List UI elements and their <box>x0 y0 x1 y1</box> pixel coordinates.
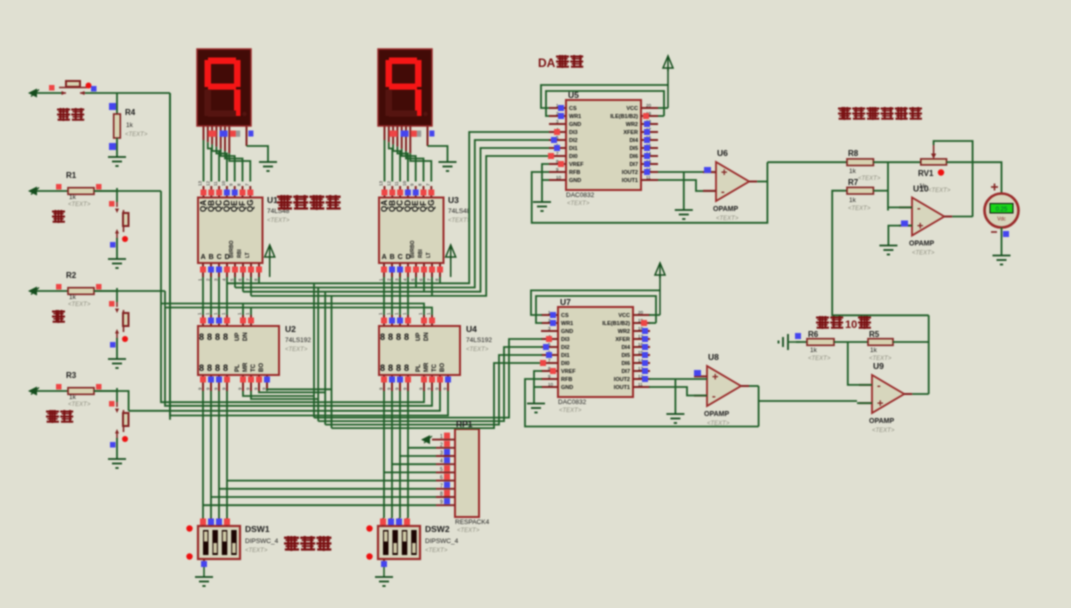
wire DSW2 to ground <box>383 566 385 577</box>
U7 GND wire <box>534 386 542 388</box>
svg-text:RESPACK4: RESPACK4 <box>455 519 490 526</box>
svg-text:DI7: DI7 <box>621 369 630 375</box>
svg-text:<TEXT>: <TEXT> <box>448 218 471 224</box>
bus wire RP1 pin6 <box>227 480 436 482</box>
blue square above R4 <box>109 103 116 110</box>
bus wire CLEAR <box>170 93 448 416</box>
svg-text:DN: DN <box>424 332 430 341</box>
terminal R2 input <box>28 287 39 296</box>
svg-text:4: 4 <box>440 459 443 465</box>
wire feedback to R7 <box>832 191 929 316</box>
wire U1 pin2 to U2 <box>210 277 212 315</box>
U5 IOUT2 gnd tap <box>683 172 685 210</box>
svg-text:R5: R5 <box>869 330 880 339</box>
svg-text:+: + <box>877 398 883 410</box>
U7 state squares <box>540 312 648 382</box>
bus wire jian lower <box>165 308 432 406</box>
svg-text:DSW2: DSW2 <box>425 524 450 534</box>
svg-text:TC: TC <box>251 363 257 372</box>
svg-text:<TEXT>: <TEXT> <box>68 202 91 208</box>
U7 VREF wire <box>534 371 542 404</box>
wire DSW1 to ground <box>203 566 205 577</box>
wire R1 to column <box>94 190 161 192</box>
svg-text:UP: UP <box>235 333 241 341</box>
7-segment display ones digit <box>197 49 251 126</box>
bus wire bottom 4 <box>332 363 543 428</box>
bus wire jia lower <box>161 304 424 403</box>
svg-text:U9: U9 <box>873 361 884 371</box>
svg-text:GND: GND <box>569 178 581 184</box>
power arrow U3 <box>446 245 456 260</box>
wire U1 pin8 drop <box>258 277 260 283</box>
ground DSW1 <box>195 577 213 586</box>
wire U3 pin6 drop <box>423 277 425 292</box>
wire U3 pin2 to U4 <box>391 277 393 315</box>
svg-text:Vdc: Vdc <box>997 217 1006 223</box>
push-button CLR <box>59 81 87 95</box>
U10 output wire <box>952 216 972 218</box>
display1 pins <box>204 126 247 153</box>
junction node CLR <box>116 93 118 114</box>
svg-text:8: 8 <box>215 332 220 342</box>
svg-text:6: 6 <box>440 475 443 481</box>
U5 IOUT2 wire to opamp <box>658 171 716 173</box>
wire U1 pin7 drop <box>250 277 252 296</box>
wire CLR button to node <box>85 92 170 94</box>
wire preset column B3 <box>407 391 409 518</box>
DSW2 pins <box>383 518 407 566</box>
U7 IOUT1 wire <box>649 387 707 396</box>
svg-text:1: 1 <box>440 434 443 440</box>
zhishu button squares <box>109 401 115 407</box>
voltmeter plus mark <box>991 184 998 191</box>
svg-text:1k: 1k <box>69 294 77 301</box>
svg-text:DI6: DI6 <box>629 154 638 160</box>
terminal R1 input <box>28 187 39 196</box>
potentiometer RV1 <box>921 159 947 165</box>
resistor R5 <box>868 339 893 346</box>
svg-text:8: 8 <box>223 332 228 342</box>
svg-text:12: 12 <box>386 180 391 186</box>
svg-text:DI4: DI4 <box>621 345 631 351</box>
svg-text:DIPSWC_4: DIPSWC_4 <box>245 538 279 545</box>
resistor R2 <box>68 288 94 295</box>
svg-text:8: 8 <box>380 363 385 373</box>
U8 output wire <box>749 385 759 387</box>
wire R4 to ground <box>116 138 118 157</box>
terminal CLR input <box>28 89 39 98</box>
svg-text:8: 8 <box>199 363 204 373</box>
wire button zhishu to ground <box>116 438 118 459</box>
svg-text:DI3: DI3 <box>561 337 570 343</box>
U3 bottom state squares <box>381 267 443 273</box>
wire U2 carry 2 <box>251 391 318 399</box>
voltmeter display <box>990 204 1013 214</box>
svg-text:UP: UP <box>416 333 422 341</box>
label yuzhishu <box>284 536 331 551</box>
svg-text:OPAMP: OPAMP <box>713 206 738 213</box>
voltmeter blue square <box>1003 231 1009 237</box>
svg-text:0.25: 0.25 <box>996 207 1008 213</box>
U4 bottom state squares <box>381 377 451 383</box>
U5 top rail 2 <box>546 91 664 116</box>
bus wire RP1 pin5 <box>384 471 436 473</box>
svg-text:DI2: DI2 <box>561 345 570 351</box>
RP1 pin numbers <box>440 434 443 506</box>
U5 IOUT1 wire <box>658 180 716 191</box>
DSW1 state squares <box>200 519 230 568</box>
resistor R4 <box>114 114 121 138</box>
power arrow U1 <box>265 245 275 260</box>
U9 output wire <box>912 393 928 395</box>
svg-text:8: 8 <box>199 332 204 342</box>
svg-text:MR: MR <box>243 362 249 372</box>
wire R2 node down <box>116 288 118 302</box>
bus wire RP1 pin8 <box>211 496 436 498</box>
wires display2 to U3 <box>385 140 432 182</box>
wire voltmeter to ground <box>1001 228 1003 256</box>
wire UP to U2 <box>242 304 244 316</box>
svg-text:WR1: WR1 <box>561 321 573 327</box>
U10 blue square <box>901 221 908 227</box>
wire R5 right <box>893 341 929 343</box>
svg-text:DI4: DI4 <box>629 138 639 144</box>
wire preset column A2 <box>218 391 220 518</box>
svg-text:-: - <box>721 186 725 198</box>
svg-text:11: 11 <box>213 181 218 186</box>
svg-text:DN: DN <box>243 332 249 341</box>
svg-text:B: B <box>209 254 214 261</box>
ground voltmeter <box>993 256 1011 265</box>
bus wire D0 to U5 <box>227 132 549 283</box>
bus wire RP1 pin7 <box>219 488 436 490</box>
svg-text:IOUT1: IOUT1 <box>622 178 638 184</box>
svg-text:5: 5 <box>440 467 443 473</box>
bus wire LOAD <box>129 391 440 411</box>
label ketiao-zengyi-shuchu <box>838 107 922 120</box>
svg-text:<TEXT>: <TEXT> <box>872 428 895 434</box>
wire R7 to node <box>873 190 888 192</box>
wire U3 pin7 drop <box>431 277 433 296</box>
U6 blue square <box>704 167 711 173</box>
wire U10 plus to ground <box>888 226 912 246</box>
svg-text:U4: U4 <box>466 324 477 334</box>
svg-text:B: B <box>390 254 395 261</box>
svg-text:1k: 1k <box>870 347 878 354</box>
dip switch DSW2 <box>378 526 420 559</box>
svg-text:<TEXT>: <TEXT> <box>912 251 935 257</box>
ground display1 <box>259 162 277 171</box>
bus wire bottom 3 <box>325 355 542 425</box>
svg-text:PL: PL <box>235 364 241 372</box>
svg-text:10: 10 <box>548 382 554 387</box>
svg-text:9: 9 <box>440 500 443 506</box>
wire preset column B1 <box>391 391 393 518</box>
wire R3 to corner <box>94 391 129 411</box>
op-amp U10 <box>912 198 944 236</box>
U2 top state squares <box>200 318 254 324</box>
ground jia <box>108 259 126 268</box>
svg-text:CS: CS <box>569 106 577 112</box>
svg-text:DI7: DI7 <box>629 162 638 168</box>
svg-text:RBI: RBI <box>237 249 243 258</box>
svg-text:DI3: DI3 <box>569 130 578 136</box>
svg-text:<TEXT>: <TEXT> <box>716 216 739 222</box>
svg-text:+: + <box>917 221 923 233</box>
svg-text:LT: LT <box>426 252 432 258</box>
R2 state squares <box>56 284 62 290</box>
svg-text:WR1: WR1 <box>569 114 581 120</box>
resistor R6 <box>807 339 834 346</box>
R1 state squares <box>56 184 62 190</box>
wire button jian to ground <box>116 338 118 359</box>
svg-text:2: 2 <box>440 442 443 448</box>
wire U1 pin1 to U2 <box>202 277 204 315</box>
svg-text:<TEXT>: <TEXT> <box>68 302 91 308</box>
svg-text:BI/RBO: BI/RBO <box>410 240 416 258</box>
svg-text:-: - <box>712 391 716 403</box>
jian button squares <box>109 301 115 307</box>
svg-text:8: 8 <box>404 332 409 342</box>
V1 bundle vertical 2 <box>317 288 319 422</box>
voltmeter minus mark <box>991 231 997 233</box>
svg-text:VCC: VCC <box>618 313 630 319</box>
display2 pins <box>385 126 428 153</box>
svg-text:QG: QG <box>427 200 436 212</box>
svg-text:DI1: DI1 <box>569 146 578 152</box>
svg-text:<TEXT>: <TEXT> <box>848 206 871 212</box>
wire U2 carry 3 <box>259 391 325 392</box>
U1 top state squares <box>201 190 254 196</box>
svg-text:11: 11 <box>638 382 643 387</box>
U9 feedback vertical <box>928 315 930 394</box>
resistor R3 <box>68 388 94 395</box>
RP1 terminal arrow <box>421 435 432 444</box>
resistor R8 <box>847 159 873 166</box>
label qingling <box>57 108 84 121</box>
svg-text:DI0: DI0 <box>561 361 570 367</box>
svg-text:U1: U1 <box>267 195 278 205</box>
svg-text:DA: DA <box>538 56 556 70</box>
V1 bundle vertical 3 <box>324 292 326 425</box>
wire U6 up rail to R8 <box>767 161 847 163</box>
counter U4 body <box>379 315 460 391</box>
wire U3 pin8 drop <box>439 277 441 283</box>
svg-text:+: + <box>712 371 718 383</box>
wire jia column <box>160 191 162 304</box>
svg-text:ILE(B1/B2): ILE(B1/B2) <box>602 321 630 327</box>
ground U5 <box>533 202 551 211</box>
svg-text:8: 8 <box>396 332 401 342</box>
U6 output up to R8 rail <box>766 162 768 181</box>
svg-text:BI/RBO: BI/RBO <box>229 240 235 258</box>
wire R1 node stub <box>94 190 117 192</box>
U5 pin names <box>569 106 639 184</box>
svg-text:1k: 1k <box>126 122 134 129</box>
svg-text:-: - <box>877 380 881 392</box>
counter U2 body <box>198 315 279 391</box>
svg-text:ILE(B1/B2): ILE(B1/B2) <box>610 114 638 120</box>
svg-text:C: C <box>217 254 222 261</box>
blue square R6 <box>795 333 801 339</box>
wire R1 terminal <box>37 190 68 192</box>
display2 state squares <box>389 131 397 137</box>
DAC U5 body <box>549 100 658 190</box>
svg-text:RFB: RFB <box>569 170 580 176</box>
push-button jian <box>115 302 129 339</box>
svg-text:DI5: DI5 <box>629 146 638 152</box>
jia button squares <box>109 201 115 207</box>
svg-text:WR2: WR2 <box>618 329 630 335</box>
bus wire D1 to U5 <box>235 140 549 288</box>
svg-text:XFER: XFER <box>623 130 638 136</box>
RV1 feedback wire <box>934 141 973 217</box>
wire U1 pin4 to U2 <box>226 277 228 315</box>
svg-text:R2: R2 <box>66 271 77 280</box>
DAC U7 body <box>541 307 650 397</box>
DSW2 dots <box>366 525 372 531</box>
ground display2 <box>439 162 457 171</box>
svg-text:U8: U8 <box>708 352 719 362</box>
svg-text:<TEXT>: <TEXT> <box>559 408 582 414</box>
svg-text:3: 3 <box>440 451 443 457</box>
blue square below R4 <box>109 143 116 150</box>
svg-text:OPAMP: OPAMP <box>704 411 729 418</box>
decoder U1 body <box>198 186 263 277</box>
wire U7 pin19 join <box>649 322 656 324</box>
svg-text:U10: U10 <box>913 184 929 194</box>
wire preset column A1 <box>210 391 212 518</box>
ground zhishu <box>108 459 126 468</box>
svg-text:U2: U2 <box>285 324 296 334</box>
U7 top rail 1 <box>531 290 660 315</box>
svg-text:<TEXT>: <TEXT> <box>245 548 268 554</box>
svg-text:74LS192: 74LS192 <box>466 337 492 344</box>
bus wire bottom 2 <box>318 347 542 421</box>
svg-text:DSW1: DSW1 <box>245 524 270 534</box>
DSW2 state squares <box>380 519 410 568</box>
wire R3 node down <box>116 388 118 402</box>
op-amp U9 <box>872 375 904 413</box>
svg-text:MR: MR <box>424 362 430 372</box>
wire preset column A0 <box>202 391 204 518</box>
U7 RFB wire <box>525 379 759 427</box>
svg-text:DI6: DI6 <box>621 361 630 367</box>
svg-text:10: 10 <box>221 180 226 186</box>
U2 pin names <box>199 332 265 373</box>
svg-text:<TEXT>: <TEXT> <box>285 347 308 353</box>
svg-text:XFER: XFER <box>615 337 630 343</box>
wire R8 to RV1 <box>873 161 920 163</box>
ground DSW2 <box>375 577 393 586</box>
svg-text:A: A <box>201 254 206 261</box>
svg-text:<TEXT>: <TEXT> <box>457 528 480 534</box>
svg-text:PL: PL <box>416 364 422 372</box>
svg-text:8: 8 <box>388 332 393 342</box>
bus wire UP clock <box>161 304 424 316</box>
U5 RFB wire <box>532 172 768 223</box>
U6 output wire <box>757 181 767 183</box>
bus wire RP1 pin2 <box>408 447 436 449</box>
bus wire RP1 pin4 <box>392 463 436 465</box>
CLR button state squares <box>49 85 55 91</box>
U5 VREF wire <box>542 164 549 202</box>
wire DN to U2 <box>250 308 252 316</box>
wire U5 pin19 join <box>658 115 664 117</box>
svg-text:R3: R3 <box>66 371 77 380</box>
U7 top rail 2 <box>536 296 656 323</box>
svg-text:8: 8 <box>380 332 385 342</box>
svg-text:U7: U7 <box>560 297 571 307</box>
svg-text:<TEXT>: <TEXT> <box>808 356 831 362</box>
U8 output junction vertical <box>758 386 760 427</box>
svg-text:GND: GND <box>561 329 573 335</box>
svg-text:R8: R8 <box>848 149 859 158</box>
svg-text:GND: GND <box>569 122 581 128</box>
U5 top rail 1 <box>541 85 668 108</box>
wire gnd to R6 <box>796 341 807 343</box>
svg-text:OPAMP: OPAMP <box>869 418 894 425</box>
svg-text:+: + <box>721 167 727 179</box>
wire CLR column <box>169 93 171 420</box>
svg-text:RFB: RFB <box>561 377 572 383</box>
wire U9 plus from U8 <box>857 402 872 404</box>
svg-text:-: - <box>917 202 921 214</box>
U5 state squares <box>548 105 650 175</box>
svg-text:12: 12 <box>205 180 210 186</box>
svg-text:10: 10 <box>402 180 407 186</box>
svg-text:LT: LT <box>245 252 251 258</box>
svg-text:74LS192: 74LS192 <box>285 337 311 344</box>
svg-text:DI5: DI5 <box>621 353 630 359</box>
svg-text:13: 13 <box>198 180 203 186</box>
svg-text:R6: R6 <box>808 330 819 339</box>
svg-text:RP1: RP1 <box>456 419 473 429</box>
label fangda-10-bei <box>816 316 843 329</box>
wire U1 pin5 drop <box>234 277 236 288</box>
svg-text:<TEXT>: <TEXT> <box>858 176 881 182</box>
V1 bundle vertical 1 <box>313 283 315 417</box>
svg-text:8: 8 <box>215 363 220 373</box>
wire jian column <box>164 291 166 308</box>
resistor R7 <box>847 187 873 194</box>
wire U1 pin6 drop <box>242 277 244 292</box>
bus wire DN clock <box>165 308 432 316</box>
svg-text:DI0: DI0 <box>569 154 578 160</box>
ground U8 input <box>666 414 684 423</box>
svg-text:DI1: DI1 <box>561 353 570 359</box>
wire RV1 to voltmeter <box>947 162 1002 193</box>
bus wire bottom 1 <box>314 339 542 418</box>
wire R3 terminal <box>37 390 68 392</box>
wire U2 carry 4 <box>267 389 332 391</box>
wire R3 node stub <box>94 390 117 392</box>
wires display1 to U1 <box>204 140 251 182</box>
dip switch DSW1 <box>198 526 240 559</box>
wire R2 node stub <box>94 290 117 292</box>
svg-text:8: 8 <box>440 492 443 498</box>
ground jian <box>108 359 126 368</box>
svg-text:1k: 1k <box>69 394 77 401</box>
svg-text:<TEXT>: <TEXT> <box>125 132 148 138</box>
svg-text:CS: CS <box>561 313 569 319</box>
svg-text:8: 8 <box>388 363 393 373</box>
wire preset column A3 <box>226 391 228 518</box>
wire display1 common to ground <box>247 146 269 162</box>
wire R2 to column <box>94 290 165 292</box>
svg-text:<TEXT>: <TEXT> <box>928 188 951 194</box>
svg-text:IOUT2: IOUT2 <box>614 377 630 383</box>
